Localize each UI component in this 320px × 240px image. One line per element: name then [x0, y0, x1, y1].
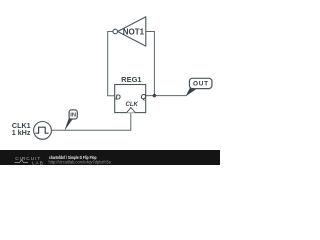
svg-text:CLK: CLK — [126, 102, 139, 108]
svg-text:LAB: LAB — [32, 160, 44, 165]
wire: NOT1 output bubble to D input of REG1 — [108, 32, 115, 96]
svg-text:NOT1: NOT1 — [123, 27, 145, 36]
NOT1 inversion bubble — [113, 29, 118, 34]
wire: Q output to OUT flag — [146, 95, 187, 97]
svg-text:REG1: REG1 — [121, 75, 141, 84]
svg-text:Q: Q — [140, 92, 146, 101]
OUT flag tail — [186, 87, 197, 97]
CircuitLab logo: trace squiggle — [15, 160, 29, 163]
svg-text:http://circuitlab.com/c4qv7dpb: http://circuitlab.com/c4qv7dpbzfc5e — [49, 160, 112, 165]
clock source CLK1 circle — [34, 121, 52, 139]
svg-text:D: D — [115, 92, 121, 101]
op-amp / inverter NOT1 triangle — [118, 17, 146, 46]
square wave glyph — [36, 127, 48, 133]
wire: CLK1 source to CLK input of REG1 — [51, 113, 130, 130]
wire: NOT1 input from Q feedback (right vertical) — [146, 32, 155, 96]
svg-text:IN: IN — [70, 113, 76, 119]
node junction at Q feedback — [153, 94, 156, 97]
CLK edge triangle marker — [127, 108, 136, 113]
flip-flop REG1 body — [115, 85, 146, 113]
OUT flag box — [189, 78, 212, 88]
svg-text:OUT: OUT — [193, 81, 209, 88]
svg-text:1 kHz: 1 kHz — [12, 128, 31, 137]
IN flag box — [69, 110, 77, 119]
IN flag tail — [65, 118, 72, 130]
watermark bar — [0, 150, 220, 165]
